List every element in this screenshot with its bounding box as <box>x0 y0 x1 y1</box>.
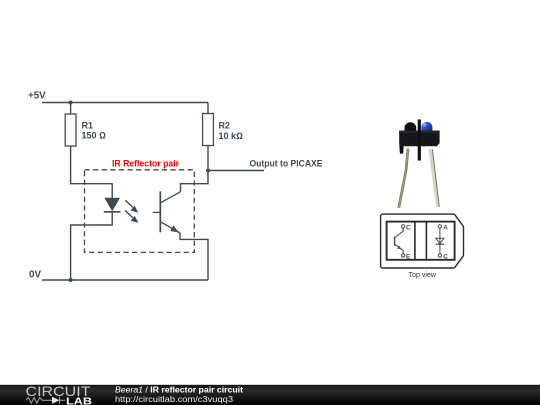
wire transistor emitter foot to 0V <box>180 233 208 280</box>
photo sensor black dome (phototransistor) <box>405 122 417 131</box>
svg-text:10 kΩ: 10 kΩ <box>219 131 244 141</box>
svg-text:C: C <box>406 224 411 231</box>
photo sensor left leg <box>397 149 409 208</box>
footer logo diode triangle <box>52 397 60 404</box>
top view divider left <box>414 222 416 260</box>
svg-text:A: A <box>443 224 448 231</box>
transistor Q1 collector slant <box>161 192 181 203</box>
node output junction <box>206 169 210 173</box>
svg-text:http://circuitlab.com/c3vuqq3: http://circuitlab.com/c3vuqq3 <box>115 394 233 404</box>
LED D1 cathode bar <box>104 211 121 213</box>
transistor Q1 emitter slant <box>161 222 180 233</box>
svg-text:C: C <box>443 253 448 260</box>
svg-text:E: E <box>406 253 411 260</box>
footer black bar <box>0 385 540 405</box>
wire R1 top lead <box>70 103 72 115</box>
svg-text:0V: 0V <box>29 270 41 281</box>
top view divider right <box>425 222 427 260</box>
node at +5V / R1 junction <box>69 101 73 105</box>
top view phototransistor pin C circle <box>401 225 404 228</box>
svg-text:IR Reflector pair: IR Reflector pair <box>112 158 179 168</box>
svg-text:LAB: LAB <box>66 397 92 405</box>
LED emission arrow 1 <box>125 200 138 213</box>
svg-text:150 Ω: 150 Ω <box>82 131 107 141</box>
top view diode symbol <box>436 228 444 254</box>
resistor R1 <box>65 114 106 146</box>
photo sensor body <box>399 131 439 147</box>
top view diode pin C circle <box>438 254 441 257</box>
top view phototransistor arrowhead <box>397 246 401 250</box>
transistor Q1 base bar <box>159 191 161 232</box>
photo sensor blue dome (IR LED) <box>421 122 432 131</box>
top view phototransistor symbol <box>395 228 404 254</box>
node 0V junction <box>69 278 73 282</box>
wire R2 bottom lead to output node <box>207 146 209 171</box>
IR Reflector pair dashed enclosure <box>85 170 195 253</box>
wire top rail +5V <box>42 102 208 104</box>
wire R2 top lead <box>207 103 209 114</box>
photo sensor center divider tab <box>418 119 421 161</box>
photo sensor left mounting post <box>399 143 403 154</box>
svg-text:+5V: +5V <box>28 90 46 101</box>
svg-text:Output to PICAXE: Output to PICAXE <box>250 159 323 169</box>
top view phototransistor pin E circle <box>401 254 404 257</box>
wire output to PICAXE <box>208 170 264 172</box>
footer logo resistor zigzag + diode line <box>26 397 65 404</box>
wire output node down to transistor collector <box>181 171 209 192</box>
wire bottom rail 0V <box>42 279 208 281</box>
top view diode pin A circle <box>438 225 441 228</box>
svg-text:Top view: Top view <box>409 270 437 279</box>
wire LED cathode down and left to 0V <box>71 212 113 280</box>
LED emission arrow 2 <box>125 210 138 222</box>
resistor R2 <box>203 114 243 146</box>
transistor Q1 emitter arrowhead <box>170 225 178 232</box>
top view inner cell frame <box>387 222 455 260</box>
top view outer package outline <box>381 214 464 268</box>
svg-text:R1: R1 <box>82 121 94 131</box>
photo sensor right leg <box>429 149 440 207</box>
svg-text:R2: R2 <box>219 121 231 131</box>
LED D1 triangle <box>104 198 120 211</box>
wire R1 bottom lead down to LED jog <box>71 146 113 198</box>
transistor Q1 base stub <box>153 211 161 213</box>
